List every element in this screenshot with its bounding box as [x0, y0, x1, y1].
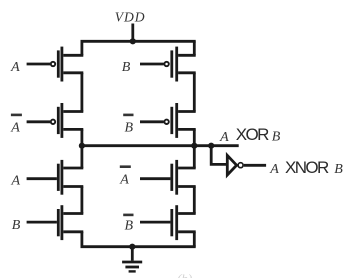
wire VDD stub — [131, 24, 134, 42]
inverter U1 — [227, 155, 266, 175]
ground junction dot — [129, 244, 135, 250]
svg-text:B: B — [122, 60, 131, 75]
transistor Q8 NMOS gate B-bar — [140, 205, 196, 240]
wire Q7 source to ground rail — [81, 232, 84, 247]
transistor Q1 PMOS gate A — [27, 47, 84, 82]
svg-text:A: A — [11, 174, 21, 189]
wire VDD rail to Q1 drain — [81, 41, 84, 55]
wire output rail to Q6 drain — [193, 146, 196, 168]
label A XNOR B — [269, 158, 343, 177]
label A-bar (Q6 gate) — [119, 165, 131, 187]
svg-text:B: B — [12, 218, 21, 233]
svg-text:A: A — [10, 120, 20, 135]
wire Q5 source to Q7 drain — [81, 187, 84, 214]
svg-text:VDD: VDD — [115, 10, 146, 25]
transistor Q4 PMOS gate B-bar — [140, 103, 196, 138]
node dot inverter tap — [208, 143, 214, 149]
label B (Q3 gate) — [122, 60, 131, 75]
wire VDD top rail — [81, 40, 196, 43]
transistor Q7 NMOS gate B — [27, 205, 84, 240]
label A XOR B — [219, 125, 281, 145]
wire Q1 source to Q2 drain — [81, 73, 84, 112]
label B-bar (Q8 gate) — [123, 214, 133, 234]
wire Q2 source to output rail — [81, 129, 84, 145]
wire output node to inverter input — [211, 146, 227, 165]
label A (Q1 gate) — [10, 60, 20, 75]
wire output rail (XOR node) — [81, 144, 239, 147]
node dot left branch — [79, 143, 85, 149]
wire ground rail — [81, 245, 196, 248]
label B (Q7 gate) — [12, 218, 21, 233]
svg-text:A: A — [119, 172, 129, 187]
svg-text:B: B — [334, 162, 343, 177]
svg-text:A: A — [10, 60, 20, 75]
ground — [122, 247, 142, 272]
label A (Q5 gate) — [11, 174, 21, 189]
svg-text:B: B — [272, 129, 281, 144]
transistor Q6 NMOS gate A-bar — [140, 160, 196, 195]
wire output rail to Q5 drain — [81, 146, 84, 168]
svg-text:B: B — [125, 120, 134, 135]
wire Q8 source to ground rail — [193, 232, 196, 247]
svg-text:(b): (b) — [177, 271, 192, 278]
transistor Q2 PMOS gate A-bar — [27, 103, 84, 138]
wire Q6 source to Q8 drain — [193, 187, 196, 214]
caption (b) partially cropped — [177, 271, 192, 278]
label A-bar (Q2 gate) — [10, 114, 22, 136]
wire Q3 source to Q4 drain — [193, 73, 196, 112]
wire Q4 source to output rail — [193, 129, 196, 145]
node dot right branch — [191, 143, 197, 149]
transistor Q5 NMOS gate A — [27, 160, 84, 195]
svg-text:A: A — [269, 162, 279, 177]
transistor Q3 PMOS gate B — [140, 47, 196, 82]
svg-text:XOR: XOR — [236, 125, 269, 144]
wire VDD rail to Q3 drain — [193, 41, 196, 55]
svg-text:A: A — [219, 130, 229, 145]
VDD junction dot — [130, 38, 136, 44]
svg-text:XNOR: XNOR — [285, 158, 329, 177]
VDD label — [115, 10, 146, 25]
label B-bar (Q4 gate) — [123, 114, 133, 136]
svg-text:B: B — [125, 219, 134, 234]
